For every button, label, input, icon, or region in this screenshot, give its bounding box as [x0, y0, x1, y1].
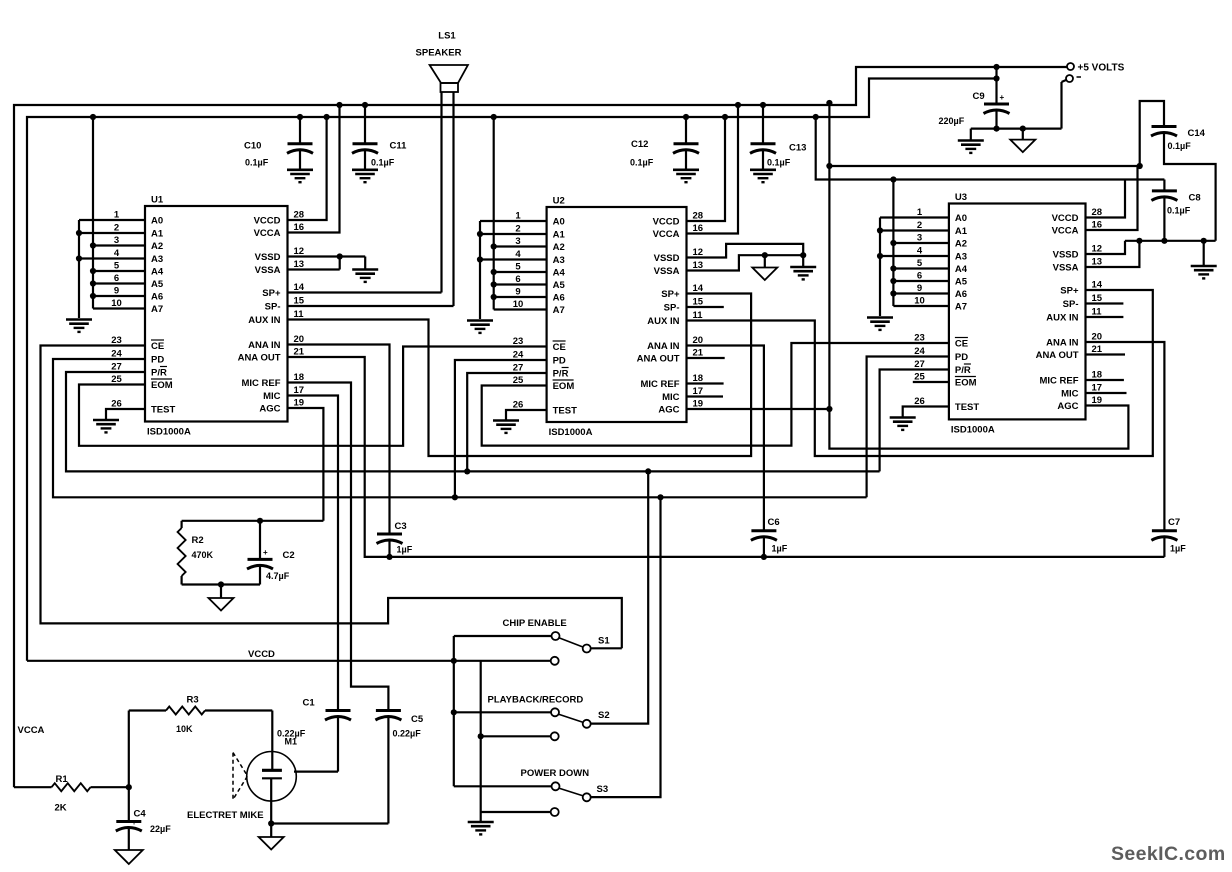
wire U2 pin 5 [494, 271, 547, 273]
resistor R2 470K [178, 521, 214, 585]
wire U3 VSSA [1086, 241, 1140, 267]
wire U2 address bus ground [479, 221, 481, 319]
svg-text:10: 10 [914, 296, 925, 307]
svg-text:23: 23 [111, 335, 122, 346]
wire R2 C2 bottom [182, 585, 260, 598]
svg-text:A0: A0 [151, 216, 163, 227]
junction dot S2 lower [478, 733, 484, 739]
svg-text:0.1µF: 0.1µF [767, 158, 791, 168]
svg-text:A2: A2 [955, 239, 967, 250]
junction dots U1 buses [76, 114, 96, 299]
ground triangle R2 [209, 598, 234, 611]
svg-text:AUX IN: AUX IN [1046, 313, 1078, 324]
wire U2 MIC REF stub [687, 382, 724, 384]
wire U3 pin 6 [893, 280, 949, 282]
wire U2 pin 9 [494, 296, 547, 298]
svg-text:A1: A1 [151, 229, 164, 240]
svg-text:9: 9 [114, 286, 119, 297]
svg-text:19: 19 [294, 398, 305, 409]
capacitor C11 0.1uF [352, 105, 407, 182]
wire U2 pin 3 [494, 245, 547, 247]
svg-text:EOM: EOM [151, 380, 173, 391]
wire U1 MIC to C1 [288, 396, 339, 711]
svg-text:PD: PD [955, 352, 968, 363]
svg-text:SP+: SP+ [1060, 286, 1079, 297]
svg-text:25: 25 [914, 372, 925, 383]
svg-text:23: 23 [914, 333, 925, 344]
watermark SeekIC.com [1111, 843, 1226, 865]
capacitor C8 0.1uF [1151, 180, 1200, 241]
switch S1 CHIP ENABLE [503, 618, 611, 653]
svg-text:VCCD: VCCD [248, 649, 275, 660]
wire C9 ground node [971, 80, 1067, 140]
wire U3 VCCA riser [1086, 166, 1138, 230]
wire mike bottom to C5 [271, 822, 388, 824]
svg-text:0.1µF: 0.1µF [630, 158, 654, 168]
svg-text:11: 11 [693, 310, 704, 321]
svg-text:12: 12 [1092, 244, 1103, 255]
wire U3 ANA IN riser [1086, 342, 1165, 531]
IC U1 ISD1000A [145, 195, 288, 438]
svg-text:12: 12 [294, 246, 305, 257]
junction dot VCCD switch riser [451, 658, 457, 664]
wire U1 pin 2 [79, 232, 145, 234]
ground bar U2 address [467, 321, 493, 333]
svg-text:S1: S1 [598, 636, 610, 647]
svg-text:SeekIC.com: SeekIC.com [1111, 843, 1226, 865]
pin numbers U2 [513, 211, 704, 411]
junction dot C14 rail [1137, 163, 1143, 169]
svg-text:P/R: P/R [553, 369, 569, 380]
svg-text:27: 27 [914, 359, 925, 370]
junction dot C2 top [257, 518, 263, 524]
wire C14 bracket [1140, 101, 1164, 166]
svg-text:17: 17 [693, 386, 704, 397]
svg-text:MIC: MIC [1061, 389, 1079, 400]
svg-text:1µF: 1µF [1170, 544, 1186, 554]
svg-text:15: 15 [294, 296, 305, 307]
svg-text:2K: 2K [55, 803, 67, 814]
svg-text:ANA IN: ANA IN [248, 340, 281, 351]
svg-text:0.22µF: 0.22µF [277, 729, 306, 739]
node S2 lower contact [481, 732, 559, 740]
svg-text:6: 6 [917, 271, 922, 282]
svg-text:13: 13 [1092, 257, 1103, 268]
wire U1 ANA OUT riser and analog bus [288, 357, 1165, 557]
svg-text:VCCD: VCCD [653, 217, 680, 228]
svg-text:0.1µF: 0.1µF [371, 158, 395, 168]
node S1 lower contact [551, 657, 559, 665]
wire U3 pin 10 [893, 305, 949, 307]
ground bar C9 [958, 141, 984, 153]
wire U3 TEST [903, 407, 949, 417]
svg-text:+: + [132, 820, 136, 827]
svg-text:P/R: P/R [151, 368, 167, 379]
svg-text:19: 19 [693, 399, 704, 410]
svg-text:A5: A5 [553, 280, 566, 291]
resistor R1 2K [14, 774, 129, 814]
svg-text:TEST: TEST [151, 405, 175, 416]
wire U3 pin 3 [893, 242, 949, 244]
pin numbers U3 [914, 207, 1103, 407]
capacitor C10 0.1uF [244, 117, 313, 182]
svg-text:25: 25 [513, 375, 524, 386]
pin numbers U1 [111, 210, 305, 410]
svg-text:A5: A5 [955, 277, 968, 288]
wire U2 pin 2 [480, 233, 547, 235]
wire AGC node top [182, 520, 324, 522]
svg-text:15: 15 [693, 297, 704, 308]
svg-text:1: 1 [515, 211, 521, 222]
wire U1 VCCA riser [288, 105, 340, 233]
wire S3 common lead [454, 785, 552, 787]
wire U1 pin 10 [93, 307, 145, 309]
svg-text:S2: S2 [598, 710, 610, 721]
wire U1 CE bus [41, 346, 622, 649]
junction dot R1 C4 [126, 784, 132, 790]
svg-text:CE: CE [553, 342, 566, 353]
svg-text:VCCA: VCCA [18, 725, 45, 736]
svg-text:18: 18 [294, 372, 305, 383]
svg-text:A6: A6 [151, 292, 163, 303]
svg-text:PD: PD [553, 356, 566, 367]
wire U1 pin 4 [79, 257, 145, 259]
svg-text:C14: C14 [1188, 128, 1206, 139]
junction dot C9 top [993, 64, 999, 82]
junction dots U2 buses [477, 114, 497, 300]
svg-text:CHIP ENABLE: CHIP ENABLE [503, 618, 567, 629]
junction dot C9 bottom [993, 126, 1026, 132]
svg-text:14: 14 [1092, 280, 1103, 291]
wire VCCA top rail [14, 67, 1067, 787]
junction dot U3 bus rail [890, 176, 896, 182]
svg-text:A3: A3 [151, 254, 163, 265]
wire VCCD right extension rail [816, 117, 1165, 180]
svg-text:LS1: LS1 [438, 31, 456, 42]
IC U3 ISD1000A [949, 192, 1086, 435]
svg-text:MIC REF: MIC REF [241, 378, 280, 389]
svg-text:220µF: 220µF [939, 116, 965, 126]
ground bar U2 VSS [790, 267, 816, 279]
svg-text:24: 24 [111, 349, 122, 360]
svg-text:5: 5 [917, 258, 923, 269]
capacitor C7 1uF [1151, 517, 1186, 557]
ground bar U2 TEST [493, 421, 519, 433]
svg-text:U1: U1 [151, 195, 164, 206]
svg-text:10: 10 [111, 298, 122, 309]
svg-text:26: 26 [914, 396, 925, 407]
svg-text:C1: C1 [303, 698, 316, 709]
switch S3 POWER DOWN [521, 768, 609, 801]
svg-text:A3: A3 [955, 252, 967, 263]
wire VCCD to S1 [27, 660, 551, 662]
svg-text:24: 24 [513, 350, 524, 361]
svg-text:PLAYBACK/RECORD: PLAYBACK/RECORD [488, 695, 584, 706]
svg-text:9: 9 [917, 283, 922, 294]
junction dot C13 rail [760, 102, 766, 108]
svg-text:19: 19 [1092, 395, 1103, 406]
svg-text:6: 6 [114, 273, 119, 284]
svg-text:27: 27 [513, 363, 524, 374]
wire U1 pin 3 [93, 244, 145, 246]
node minus terminal [1066, 75, 1081, 82]
ground bar U1 VSS [352, 270, 378, 282]
wire U3 pin 1 [880, 216, 949, 218]
ground triangle C4 [115, 850, 143, 864]
svg-text:10K: 10K [176, 724, 193, 734]
wire U3 EOM stub [913, 381, 949, 383]
junction dot VCCD jog [813, 114, 819, 120]
wire U3 MIC REF stub [1086, 379, 1124, 381]
svg-text:VSSA: VSSA [654, 266, 680, 277]
svg-text:3: 3 [515, 236, 520, 247]
capacitor C5 0.22uF [375, 711, 423, 824]
svg-text:C11: C11 [390, 141, 408, 152]
wire U2 AUX IN to U3 SP+ cascade [687, 290, 1153, 456]
IC U2 ISD1000A [547, 196, 687, 439]
junction dot S2 common [451, 709, 457, 715]
wire U2 VSSA [687, 255, 804, 270]
svg-text:ANA OUT: ANA OUT [637, 354, 680, 365]
wire U1 MIC REF to C5 [288, 383, 389, 711]
svg-text:TEST: TEST [955, 402, 979, 413]
wire U2 SP- stub [687, 306, 724, 308]
wire U1 pin 5 [93, 270, 145, 272]
svg-text:16: 16 [693, 223, 704, 234]
junction dot U1 VCCD [324, 114, 330, 120]
svg-text:VSSD: VSSD [255, 252, 281, 263]
ground triangle mike [259, 824, 284, 850]
svg-text:A4: A4 [553, 268, 566, 279]
wire U2 P/R riser [467, 373, 546, 471]
wire U1 ANA IN riser [288, 345, 390, 535]
svg-text:+: + [263, 548, 268, 557]
junction dots P/R bus [464, 468, 651, 474]
svg-text:0.1µF: 0.1µF [1167, 206, 1191, 216]
junction dot AGC column [826, 100, 832, 412]
svg-text:2: 2 [515, 224, 520, 235]
wire U1 PD bus [53, 359, 867, 497]
wire U1 VCCD riser [288, 117, 327, 220]
svg-text:VCCA: VCCA [1052, 226, 1079, 237]
svg-text:0.1µF: 0.1µF [245, 158, 269, 168]
junction dots PD bus [452, 494, 664, 500]
wire U2 ANA OUT stub [687, 357, 725, 359]
ground bar U1 address [66, 320, 92, 332]
svg-text:17: 17 [294, 385, 305, 396]
svg-text:3: 3 [917, 233, 922, 244]
svg-text:C10: C10 [244, 141, 261, 152]
wire U3 ANA OUT stub [1086, 353, 1126, 355]
node +5 VOLTS terminal [1067, 63, 1125, 74]
svg-text:12: 12 [693, 247, 704, 258]
svg-text:ANA IN: ANA IN [647, 341, 680, 352]
svg-text:18: 18 [1092, 370, 1103, 381]
wire U3 MIC stub [1086, 392, 1127, 394]
svg-text:25: 25 [111, 374, 122, 385]
svg-text:MIC REF: MIC REF [640, 379, 679, 390]
capacitor C4 22uF [116, 787, 171, 849]
svg-text:15: 15 [1092, 293, 1103, 304]
capacitor C1 0.22uF [277, 698, 351, 772]
svg-text:R1: R1 [56, 774, 69, 785]
svg-text:ANA IN: ANA IN [1046, 338, 1079, 349]
junction dot C10 rail [297, 114, 303, 120]
svg-text:2: 2 [114, 223, 119, 234]
wire U3 SP- stub [1086, 302, 1124, 304]
wire S1 output [591, 647, 622, 649]
wire U1 TEST [106, 409, 145, 420]
junction dot U1 VCCA [336, 102, 342, 108]
capacitor C14 0.1uF [1151, 127, 1216, 241]
svg-text:C3: C3 [395, 521, 407, 532]
svg-text:AUX IN: AUX IN [248, 315, 280, 326]
svg-text:ISD1000A: ISD1000A [549, 427, 593, 438]
svg-text:13: 13 [294, 259, 305, 270]
capacitor C6 1uF [751, 517, 788, 557]
wire U3 pin 5 [893, 267, 949, 269]
svg-text:VCCD: VCCD [1052, 213, 1079, 224]
svg-text:21: 21 [294, 347, 305, 358]
svg-text:21: 21 [1092, 344, 1103, 355]
wire speaker to U1 SP+ [288, 92, 442, 293]
wire U2 pin 1 [480, 220, 547, 222]
svg-text:C5: C5 [411, 714, 424, 725]
wire U3 pin 2 [880, 229, 949, 231]
wire U3 VCCD riser [1086, 180, 1126, 218]
svg-text:21: 21 [693, 348, 704, 359]
wire S3 output riser [591, 497, 661, 797]
svg-text:20: 20 [693, 335, 704, 346]
wire U1 address bus high [92, 117, 94, 309]
svg-text:11: 11 [1092, 307, 1103, 318]
wire S2 output riser [591, 471, 649, 723]
wire U2 VSSD [687, 244, 804, 267]
svg-text:1: 1 [917, 207, 923, 218]
wire U2 AGC [687, 408, 830, 410]
wire U2 address bus high [493, 117, 495, 310]
svg-text:20: 20 [294, 334, 305, 345]
svg-text:VSSA: VSSA [1053, 263, 1079, 274]
ground bar U1 TEST [93, 420, 119, 432]
svg-text:18: 18 [693, 373, 704, 384]
svg-text:SP-: SP- [664, 303, 680, 314]
svg-text:A7: A7 [553, 305, 565, 316]
svg-text:MIC REF: MIC REF [1039, 376, 1078, 387]
svg-text:VCCA: VCCA [254, 228, 281, 239]
svg-text:A2: A2 [151, 241, 163, 252]
svg-text:AGC: AGC [1057, 401, 1078, 412]
wire U3 VSSD [1086, 241, 1126, 254]
ground bar U3 TEST [890, 418, 916, 430]
svg-text:4: 4 [917, 246, 923, 257]
svg-text:4: 4 [515, 249, 521, 260]
svg-text:A7: A7 [955, 302, 967, 313]
svg-text:23: 23 [513, 336, 524, 347]
capacitor C2 4.7uF [247, 521, 295, 585]
svg-text:22µF: 22µF [150, 824, 171, 834]
svg-text:0.1µF: 0.1µF [1168, 141, 1192, 151]
resistor R3 10K [129, 695, 272, 788]
svg-text:A6: A6 [955, 289, 967, 300]
svg-text:EOM: EOM [553, 381, 575, 392]
svg-text:A4: A4 [151, 267, 164, 278]
svg-text:C4: C4 [134, 809, 147, 820]
wire U2 ANA IN riser [687, 346, 764, 531]
svg-text:27: 27 [111, 362, 122, 373]
svg-text:1µF: 1µF [397, 545, 413, 555]
junction dots U3 buses [877, 227, 897, 296]
svg-text:A4: A4 [955, 264, 968, 275]
wire U3 address bus ground [879, 218, 881, 317]
svg-text:VSSA: VSSA [255, 265, 281, 276]
label VCCA [18, 725, 45, 736]
wire S1 common lead [454, 635, 552, 637]
switch S2 PLAYBACK/RECORD [488, 695, 610, 728]
wire AGC column [829, 103, 1128, 449]
junction dot C12 rail [683, 114, 689, 120]
wire U3 PD riser [867, 357, 949, 498]
svg-text:26: 26 [111, 399, 122, 410]
svg-text:A0: A0 [553, 217, 565, 228]
svg-text:SP-: SP- [1063, 299, 1079, 310]
svg-text:C2: C2 [283, 550, 295, 561]
svg-text:A7: A7 [151, 304, 163, 315]
wire U1 P/R bus [66, 372, 880, 471]
svg-text:C13: C13 [789, 143, 806, 154]
svg-text:VCCA: VCCA [653, 229, 680, 240]
junction dot U1 VSS [337, 253, 343, 259]
microphone M1 electret [233, 711, 297, 824]
wire U3 pin 4 [880, 255, 949, 257]
svg-text:0.22µF: 0.22µF [393, 729, 422, 739]
wire U1 address bus ground [78, 220, 80, 318]
svg-text:1: 1 [114, 210, 120, 221]
svg-text:ANA OUT: ANA OUT [1036, 350, 1079, 361]
junction dot U2 VCCD [722, 114, 728, 120]
svg-text:SP+: SP+ [661, 289, 680, 300]
svg-text:ISD1000A: ISD1000A [147, 427, 191, 438]
wire U3 P/R riser [880, 370, 949, 472]
svg-text:C12: C12 [631, 139, 648, 150]
svg-text:3: 3 [114, 235, 119, 246]
svg-text:AGC: AGC [259, 404, 280, 415]
junction dot R2 bottom [218, 581, 224, 587]
wire speaker to U1 SP- [288, 92, 454, 306]
wire ground riser switches [480, 661, 482, 822]
svg-text:VSSD: VSSD [654, 253, 680, 264]
svg-text:4: 4 [114, 248, 120, 259]
wire U2 PD riser [455, 360, 547, 497]
svg-text:28: 28 [1092, 207, 1103, 218]
svg-text:R3: R3 [187, 695, 199, 706]
svg-text:20: 20 [1092, 332, 1103, 343]
capacitor C13 0.1uF [750, 105, 806, 182]
wire U1 EOM to U2 CE cascade [79, 347, 547, 446]
wire U1 AGC riser [288, 408, 324, 521]
svg-text:ISD1000A: ISD1000A [951, 424, 995, 435]
svg-text:+: + [1000, 93, 1005, 102]
svg-text:SP+: SP+ [262, 288, 281, 299]
ground triangle C9 [1010, 140, 1035, 153]
svg-text:C7: C7 [1168, 517, 1180, 528]
svg-text:SP-: SP- [265, 302, 281, 313]
svg-text:28: 28 [693, 211, 704, 222]
junction dot C11 rail [362, 102, 368, 108]
junction dot C6 bottom [761, 554, 767, 560]
svg-text:4.7µF: 4.7µF [266, 571, 290, 581]
capacitor C12 0.1uF [630, 117, 699, 182]
